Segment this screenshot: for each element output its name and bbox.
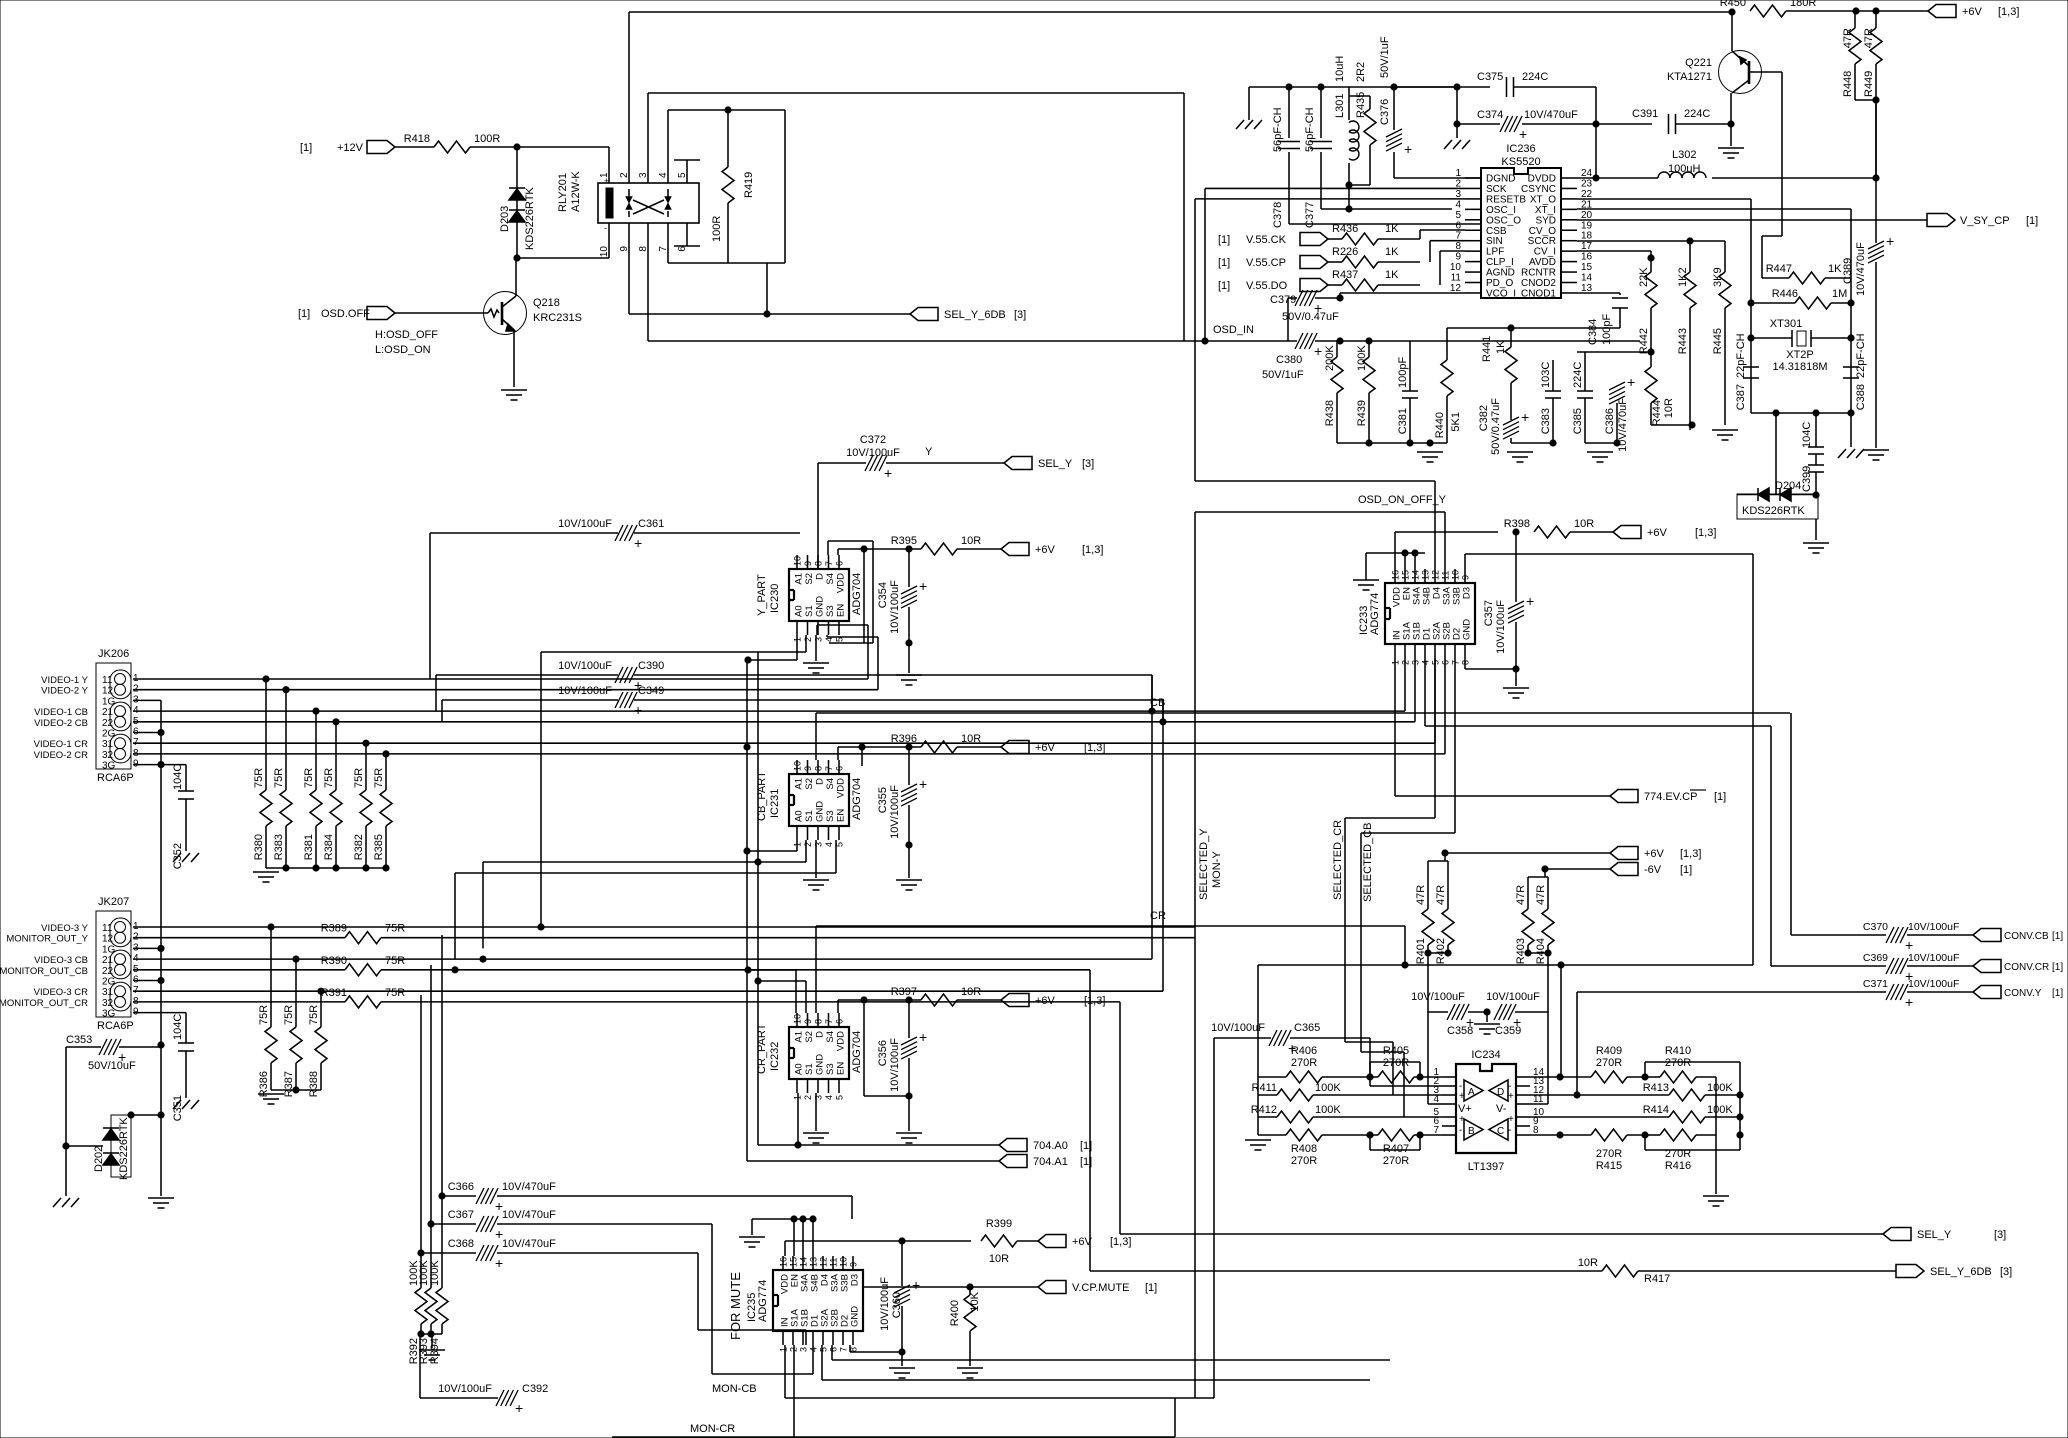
wire	[837, 1000, 839, 1013]
wire R440/R441 top	[1447, 327, 1620, 329]
svg-text:[1,3]: [1,3]	[1695, 527, 1716, 539]
svg-text:A1: A1	[794, 573, 805, 585]
wire VIDEO-2 Y	[133, 689, 878, 691]
svg-text:SEL_Y_6DB: SEL_Y_6DB	[1930, 1266, 1992, 1278]
wire	[1514, 86, 1596, 88]
svg-text:C370: C370	[1863, 921, 1888, 933]
svg-text:47R: 47R	[1515, 885, 1527, 905]
wire	[901, 1306, 903, 1366]
svg-text:22pF-CH: 22pF-CH	[1735, 333, 1747, 378]
svg-text:JK206: JK206	[98, 648, 129, 660]
wire	[1369, 1038, 1371, 1086]
wire R419 bottom	[668, 262, 785, 264]
ground R392-4	[419, 1350, 445, 1360]
svg-text:IC234: IC234	[1471, 1049, 1500, 1061]
label net 704.A0 ref	[1080, 1140, 1092, 1152]
wire GND pin	[1464, 658, 1466, 669]
svg-text:50V/10uF: 50V/10uF	[88, 1060, 136, 1072]
junction	[1454, 121, 1460, 127]
wire	[1328, 238, 1342, 240]
label C391 ref	[1632, 108, 1658, 120]
junction	[1412, 550, 1418, 556]
junction	[1367, 1074, 1373, 1080]
svg-text:3: 3	[814, 1095, 824, 1100]
label R417 ref	[1644, 1273, 1670, 1285]
junction	[1558, 962, 1564, 968]
label net [1] V.55.CP	[1218, 257, 1230, 269]
junction	[158, 1042, 164, 1048]
junction	[1427, 440, 1433, 446]
svg-text:10: 10	[793, 1014, 803, 1024]
svg-text:1K2: 1K2	[1677, 267, 1689, 287]
label net SEL_Y bottom ref	[1994, 1229, 2006, 1241]
capacitor C371 10V/100uF	[1863, 978, 1959, 1010]
label net CONV.Y ref	[2052, 988, 2063, 999]
svg-text:IC236: IC236	[1506, 143, 1535, 155]
wire	[1696, 1076, 1716, 1078]
wire	[1257, 965, 1259, 1077]
svg-text:SEL_Y: SEL_Y	[1038, 458, 1073, 470]
wire C366 left	[442, 1195, 476, 1197]
junction	[363, 865, 369, 871]
wire	[1339, 293, 1341, 298]
label net V.55.CK	[1246, 234, 1287, 246]
label net +6V mute ref	[1110, 1236, 1131, 1248]
junction	[755, 859, 761, 865]
resistor R402 47R	[1435, 861, 1454, 964]
capacitor C389 10V/470uF	[1842, 233, 1894, 296]
svg-text:75R: 75R	[258, 1005, 270, 1025]
junction	[800, 1216, 806, 1222]
svg-text:D: D	[815, 573, 826, 580]
wire	[1705, 1116, 1740, 1118]
svg-text:9: 9	[1455, 252, 1461, 263]
svg-text:MON-CR: MON-CR	[690, 1423, 735, 1435]
wire riser S3A	[1444, 512, 1446, 569]
wire C374 riser	[1456, 87, 1458, 124]
svg-text:GND: GND	[1462, 619, 1473, 640]
wire	[1585, 442, 1617, 444]
capacitor C388 22pF-CH	[1843, 367, 1867, 410]
wire	[131, 1114, 161, 1116]
svg-text:10V/100uF: 10V/100uF	[1908, 921, 1959, 933]
wire	[797, 1093, 799, 1145]
junction	[1574, 1092, 1580, 1098]
wire VDD riser	[1394, 532, 1396, 569]
wire	[1528, 876, 1548, 878]
svg-text:47R: 47R	[1842, 28, 1854, 48]
svg-text:10R: 10R	[989, 1253, 1009, 1265]
wire Q221 collector drop	[1781, 72, 1783, 236]
wire VIDEO-2 CB	[133, 721, 1415, 723]
wire relay pin8 drop	[647, 223, 649, 341]
svg-text:[1]: [1]	[1680, 864, 1692, 876]
svg-text:C361: C361	[638, 518, 664, 530]
wire	[817, 624, 868, 626]
label net -6V	[1644, 864, 1662, 876]
wire	[1547, 1012, 1549, 1104]
wire C392 left	[420, 1397, 498, 1399]
wire OSD_ON_OFF_Y b	[1195, 511, 1445, 513]
svg-text:R410: R410	[1665, 1045, 1691, 1057]
svg-text:12: 12	[1431, 570, 1441, 580]
resistor R443 1K2	[1677, 241, 1696, 425]
wire	[1404, 553, 1406, 569]
svg-text:C369: C369	[1863, 952, 1888, 964]
junction	[1848, 335, 1854, 341]
wire	[1875, 303, 1877, 448]
label Q221 part	[1667, 71, 1712, 83]
svg-text:[1,3]: [1,3]	[1084, 995, 1105, 1007]
op-amp IC232 (analog switch ADG704)	[756, 1013, 863, 1100]
svg-text:SELECTED_CR: SELECTED_CR	[1332, 820, 1344, 900]
wire	[1627, 1076, 1645, 1078]
svg-text:22pF-CH: 22pF-CH	[1855, 333, 1867, 378]
svg-text:SELECTED_Y: SELECTED_Y	[1198, 828, 1210, 900]
svg-text:R400: R400	[949, 1300, 961, 1326]
svg-text:VIDEO-2 CR: VIDEO-2 CR	[34, 750, 89, 761]
label net +6V ic233	[1647, 527, 1668, 539]
resistor R441 1K	[1481, 336, 1517, 420]
svg-text:9: 9	[849, 1262, 859, 1267]
wire	[470, 146, 609, 148]
svg-text:IC231: IC231	[769, 789, 781, 818]
svg-text:270R: 270R	[1596, 1057, 1622, 1069]
wire	[697, 1253, 699, 1330]
wire mute bus	[822, 1379, 1370, 1381]
label net [1] V.55.DO	[1218, 280, 1230, 292]
svg-text:9: 9	[803, 561, 813, 566]
label C375 value	[1522, 71, 1548, 83]
svg-text:C392: C392	[522, 1383, 548, 1395]
label C358 ref	[1447, 1025, 1473, 1037]
svg-text:CLP_I: CLP_I	[1486, 257, 1514, 268]
label net VIDEO-3 CB	[34, 955, 88, 966]
wire	[1361, 1051, 1404, 1053]
junction	[1508, 325, 1514, 331]
wire riser m2	[430, 965, 432, 1224]
port SEL_Y	[1004, 457, 1032, 470]
junction	[1593, 175, 1599, 181]
svg-text:10: 10	[1451, 570, 1461, 580]
label net VIDEO-3 Y	[41, 923, 88, 934]
svg-text:8: 8	[814, 561, 824, 566]
wire mute bus2	[832, 1359, 1390, 1361]
label net OSD_IN	[1213, 324, 1254, 336]
svg-text:10V/100uF: 10V/100uF	[889, 580, 901, 634]
wire +6V rail CR	[838, 999, 921, 1001]
wire	[1676, 123, 1731, 125]
svg-text:EN: EN	[836, 809, 847, 822]
svg-text:VDD: VDD	[836, 573, 847, 593]
wire MONITOR_OUT_CR	[381, 1001, 1120, 1003]
wire SCK riser	[1204, 188, 1206, 341]
resistor R448 47R	[1842, 28, 1861, 100]
wire	[1365, 553, 1367, 580]
svg-text:75R: 75R	[253, 768, 265, 788]
capacitor C370 10V/100uF	[1863, 921, 1959, 953]
wire C390 right	[634, 674, 1152, 676]
wire	[1528, 952, 1548, 954]
svg-text:KRC231S: KRC231S	[533, 312, 582, 324]
op-amp IC236 KS5520 sync separator	[1450, 143, 1593, 299]
svg-text:D202: D202	[93, 1146, 105, 1172]
svg-text:C367: C367	[448, 1209, 474, 1221]
svg-text:KDS226RTK: KDS226RTK	[524, 187, 536, 250]
svg-text:A0: A0	[794, 810, 805, 822]
wire C376 bottom	[1393, 152, 1395, 178]
svg-text:50V/0.47uF: 50V/0.47uF	[1490, 398, 1502, 455]
capacitor C379 50V/0.47uF	[1270, 290, 1339, 323]
resistor R445 3K9	[1712, 241, 1731, 380]
wire	[1174, 1398, 1176, 1437]
wire	[1651, 424, 1692, 426]
resistor R435 2R2	[1349, 62, 1376, 185]
wire	[66, 1046, 101, 1048]
wire to SIN	[1430, 240, 1465, 242]
wire +6V top	[1786, 10, 1928, 12]
svg-text:V_SY_CP: V_SY_CP	[1960, 215, 2010, 227]
svg-text:R387: R387	[283, 1071, 295, 1097]
wire	[1345, 817, 1435, 819]
capacitor C372 10V/100uF	[846, 434, 900, 481]
svg-text:R389: R389	[321, 923, 347, 935]
wire	[1486, 1012, 1488, 1022]
port +6V lt	[1610, 847, 1638, 860]
junction	[293, 1087, 299, 1093]
svg-text:RLY201: RLY201	[557, 173, 569, 212]
svg-text:R380: R380	[253, 834, 265, 860]
svg-text:75R: 75R	[385, 987, 405, 999]
port CONV.CR	[1973, 960, 2001, 973]
wire C361 row	[430, 532, 618, 534]
wire	[835, 840, 837, 873]
junction	[1407, 440, 1413, 446]
wire crystal right node	[1850, 209, 1852, 413]
junction	[906, 1093, 912, 1099]
wire	[827, 541, 829, 555]
label net SELECTED_CB	[1362, 823, 1374, 902]
svg-text:R418: R418	[404, 133, 430, 145]
chassis ground C374	[1444, 140, 1470, 149]
svg-text:+: +	[1314, 343, 1322, 359]
wire	[1689, 425, 1691, 430]
svg-text:R397: R397	[891, 986, 917, 998]
port 704.A1	[999, 1155, 1027, 1168]
svg-text:ADG774: ADG774	[757, 1280, 769, 1322]
wire relay pin7 stub	[667, 223, 669, 263]
svg-text:S3: S3	[825, 605, 836, 617]
label R417 value	[1578, 1257, 1598, 1269]
capacitor C399	[1801, 465, 1824, 495]
label note H:OSD_OFF	[375, 329, 438, 341]
wire VIDEO-1 CB	[133, 710, 1405, 712]
svg-text:4: 4	[824, 1095, 834, 1100]
wire	[1751, 337, 1792, 339]
wire riser CR1	[1434, 658, 1436, 743]
wire -6V	[1545, 868, 1610, 870]
wire +6V mute row	[785, 1240, 971, 1242]
wire SCCR row	[1577, 240, 1725, 242]
wire C357 top	[1515, 532, 1517, 602]
svg-text:14: 14	[799, 1257, 809, 1267]
resistor R416 270R	[1660, 1129, 1696, 1172]
wire to amp D	[1560, 965, 1562, 1077]
wire	[751, 1219, 753, 1235]
svg-text:MON-CB: MON-CB	[712, 1383, 757, 1395]
label net Y	[925, 446, 933, 458]
svg-text:ADG704: ADG704	[851, 778, 863, 820]
svg-text:1K: 1K	[1495, 340, 1507, 354]
wire	[805, 840, 807, 862]
ground C356	[896, 1133, 922, 1143]
svg-text:[1]: [1]	[2052, 962, 2063, 973]
wire	[784, 1345, 786, 1398]
resistor R417	[1602, 1265, 1638, 1277]
svg-text:774.EV.CP: 774.EV.CP	[1644, 791, 1697, 803]
svg-text:+6V: +6V	[1647, 527, 1668, 539]
wire A-bus left	[746, 660, 748, 851]
junction	[1402, 550, 1408, 556]
wire	[1465, 668, 1516, 670]
label net CONV.CB ref	[2052, 931, 2063, 942]
svg-text:D: D	[815, 1031, 826, 1038]
wire	[1584, 352, 1586, 365]
junction	[744, 848, 750, 854]
svg-text:R445: R445	[1712, 328, 1724, 354]
svg-text:MONITOR_OUT_CR: MONITOR_OUT_CR	[0, 998, 88, 1009]
wire	[796, 635, 798, 660]
svg-text:S4: S4	[825, 573, 836, 585]
wire A-bus to 704.A0	[757, 862, 759, 1145]
svg-text:10V/100uF: 10V/100uF	[889, 1038, 901, 1092]
svg-text:VIDEO-2 Y: VIDEO-2 Y	[41, 686, 88, 697]
svg-text:R405: R405	[1383, 1045, 1409, 1057]
capacitor C392 10V/100uF	[438, 1383, 548, 1416]
svg-text:10R: 10R	[1578, 1257, 1598, 1269]
wire SELECTED_CB	[1360, 833, 1362, 1052]
wire	[1429, 241, 1431, 262]
wire	[1638, 1270, 1896, 1272]
resistor R447 1K	[1766, 263, 1842, 284]
capacitor C367 10V/470uF	[448, 1209, 556, 1242]
wire	[1427, 1012, 1429, 1104]
junction	[363, 740, 369, 746]
svg-text:1K: 1K	[1385, 269, 1399, 281]
wire	[815, 635, 817, 661]
svg-text:C359: C359	[1495, 1025, 1521, 1037]
wire MONITOR_OUT_CB	[381, 969, 1090, 971]
wire C390 drop	[1151, 675, 1153, 711]
wire	[1322, 1076, 1370, 1078]
wire SELECTED_Y riser	[1194, 512, 1196, 1038]
ground IC232	[803, 1133, 829, 1143]
svg-text:10R: 10R	[1663, 398, 1675, 418]
svg-text:C356: C356	[877, 1040, 889, 1066]
svg-text:10R: 10R	[961, 733, 981, 745]
svg-text:224C: 224C	[1684, 108, 1710, 120]
svg-text:50V/1uF: 50V/1uF	[1262, 369, 1304, 381]
junction	[333, 865, 339, 871]
resistor R438 200K	[1324, 341, 1343, 443]
label net +6V top	[1962, 6, 1983, 18]
svg-text:ADG704: ADG704	[851, 573, 863, 615]
svg-text:10uH: 10uH	[1334, 56, 1346, 82]
svg-text:XT301: XT301	[1770, 318, 1802, 330]
svg-text:R435: R435	[1355, 92, 1367, 118]
wire relay pin4 riser	[667, 110, 669, 183]
label net MON-CB	[712, 1383, 757, 1395]
svg-text:75R: 75R	[385, 923, 405, 935]
label net +6V y ref	[1082, 544, 1103, 556]
svg-text:D: D	[815, 778, 826, 785]
svg-text:V.55.CP: V.55.CP	[1246, 257, 1286, 269]
svg-text:SCK: SCK	[1486, 184, 1507, 195]
port SEL_Y_6DB	[910, 308, 938, 321]
wire riser C390	[435, 675, 437, 711]
junction	[1513, 529, 1519, 535]
svg-text:R416: R416	[1665, 1160, 1691, 1172]
port CONV.Y	[1973, 986, 2001, 999]
svg-text:16: 16	[1581, 252, 1593, 263]
wire	[1515, 1011, 1548, 1013]
wire	[161, 764, 186, 766]
svg-text:270R: 270R	[1383, 1057, 1409, 1069]
resistor R395	[891, 535, 982, 555]
svg-text:+: +	[495, 1255, 503, 1271]
wire	[1875, 262, 1877, 303]
label net SEL_Y_6DB	[944, 309, 1006, 321]
svg-text:1K: 1K	[1385, 246, 1399, 258]
wire SEL_Y bottom	[1120, 1233, 1883, 1235]
wire	[793, 1345, 795, 1437]
wire	[1315, 297, 1340, 299]
svg-text:1G: 1G	[102, 696, 116, 707]
svg-text:R447: R447	[1766, 263, 1792, 275]
junction	[791, 1216, 797, 1222]
svg-text:RCNTR: RCNTR	[1521, 268, 1556, 279]
wire	[796, 840, 798, 851]
wire	[957, 746, 1001, 748]
svg-text:C357: C357	[1483, 600, 1495, 626]
wire	[1419, 230, 1421, 239]
label Q218 part	[533, 312, 582, 324]
wire	[821, 1345, 823, 1380]
svg-text:10V/100uF: 10V/100uF	[1486, 991, 1540, 1003]
svg-text:10V/470uF: 10V/470uF	[502, 1238, 556, 1250]
wire VIDEO-2 CR	[133, 753, 1445, 755]
label net SEL_Y	[1038, 458, 1073, 470]
port +6V y	[1001, 543, 1029, 556]
label net SEL_Y bottom	[1917, 1229, 1952, 1241]
capacitor C369 10V/100uF	[1863, 952, 1959, 984]
port +12V	[367, 141, 395, 154]
label net SEL_Y_6DB ref	[1014, 309, 1026, 321]
svg-text:21: 21	[102, 707, 114, 718]
wire	[711, 1224, 713, 1374]
wire	[812, 1345, 814, 1374]
svg-text:D204: D204	[1775, 480, 1801, 492]
svg-text:270R: 270R	[1596, 1148, 1622, 1160]
svg-text:C366: C366	[448, 1181, 474, 1193]
svg-text:103C: 103C	[1540, 362, 1552, 388]
svg-text:MONITOR_OUT_CB: MONITOR_OUT_CB	[0, 966, 88, 977]
svg-text:270R: 270R	[1291, 1155, 1317, 1167]
wire CONV.CB	[1791, 934, 1886, 936]
wire	[1775, 413, 1777, 494]
label net V.55.DO	[1246, 280, 1288, 292]
svg-text:100pF: 100pF	[1601, 314, 1613, 345]
